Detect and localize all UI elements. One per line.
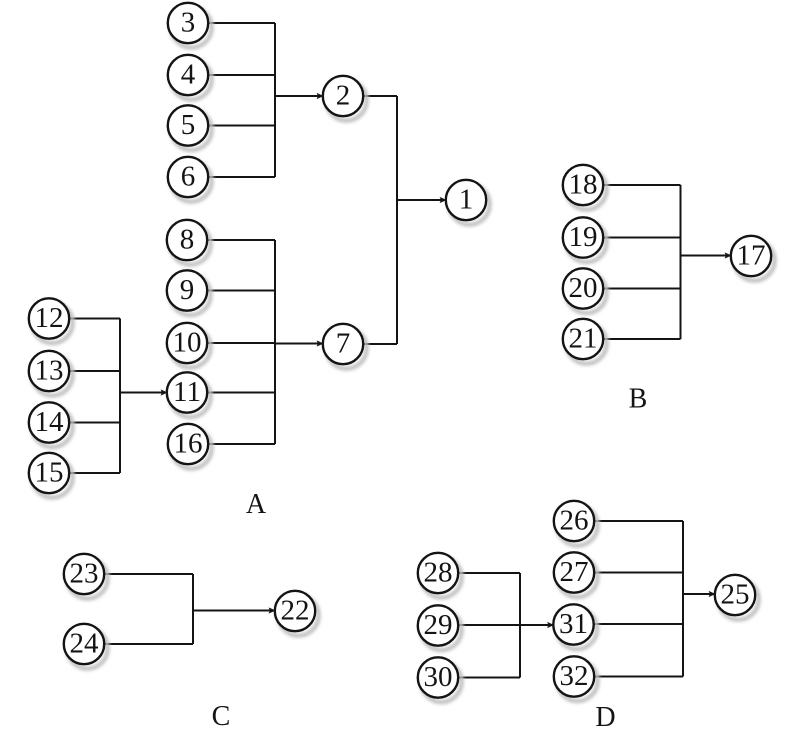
- node 5: [168, 105, 212, 150]
- wire 7-junction: [363, 343, 397, 345]
- svg-text:1: 1: [459, 183, 474, 215]
- svg-text:20: 20: [569, 272, 598, 304]
- wire 20-busB: [603, 288, 680, 290]
- svg-text:6: 6: [181, 160, 196, 192]
- wire 24-busC: [104, 643, 193, 645]
- node 25: [715, 575, 759, 620]
- node 12: [29, 298, 73, 343]
- arrow busC-to-22: [193, 607, 276, 613]
- svg-text:27: 27: [560, 556, 589, 588]
- node 24: [64, 624, 108, 669]
- wire 2-junction: [363, 95, 397, 97]
- node 27: [554, 552, 598, 597]
- node 16: [168, 424, 212, 469]
- node 30: [418, 657, 462, 702]
- svg-text:17: 17: [737, 239, 766, 271]
- wire 3-busA1: [208, 22, 275, 24]
- svg-text:29: 29: [424, 609, 453, 641]
- wire 13-busA3: [69, 370, 120, 372]
- bus A2 (8-16 collector): [274, 240, 276, 444]
- svg-text:26: 26: [560, 504, 589, 536]
- wire 11-busA2: [207, 392, 275, 394]
- svg-text:12: 12: [35, 302, 64, 334]
- label B: [629, 383, 648, 414]
- arrow busA2-to-7: [275, 340, 324, 346]
- wire 4-busA1: [208, 74, 275, 76]
- svg-text:28: 28: [424, 556, 453, 588]
- node 1: [446, 180, 490, 225]
- node 23: [64, 554, 108, 599]
- node 7: [323, 324, 367, 369]
- svg-text:7: 7: [336, 327, 351, 359]
- bus C (23-24 collector): [192, 574, 194, 644]
- node 9: [167, 270, 211, 315]
- wire 28-busD1: [458, 572, 520, 574]
- node 18: [563, 165, 607, 210]
- label D: [595, 702, 615, 733]
- node 22: [275, 591, 319, 636]
- label A: [246, 489, 267, 520]
- wire 8-busA2: [207, 239, 275, 241]
- wire 23-busC: [104, 573, 193, 575]
- svg-text:14: 14: [35, 406, 65, 438]
- svg-text:15: 15: [35, 456, 64, 488]
- wire 19-busB: [603, 237, 680, 239]
- wire 32-busD2: [594, 676, 683, 678]
- wire 9-busA2: [207, 290, 275, 292]
- svg-text:13: 13: [35, 354, 64, 386]
- svg-text:18: 18: [569, 168, 598, 200]
- node 20: [563, 268, 607, 313]
- wire 14-busA3: [69, 422, 120, 424]
- svg-text:24: 24: [70, 627, 100, 659]
- node 14: [29, 402, 73, 447]
- svg-text:3: 3: [181, 6, 196, 38]
- arrow busB-to-17: [681, 252, 732, 258]
- svg-text:9: 9: [180, 274, 195, 306]
- wire 18-busB: [603, 184, 680, 186]
- wire 26-busD2: [594, 520, 683, 522]
- node 13: [29, 351, 73, 396]
- node 21: [563, 319, 607, 364]
- node 3: [168, 3, 212, 48]
- svg-text:32: 32: [560, 660, 589, 692]
- svg-text:11: 11: [173, 376, 201, 408]
- arrow 29-to-31: [458, 622, 554, 628]
- svg-text:25: 25: [721, 578, 750, 610]
- node 31: [553, 604, 597, 649]
- label C: [212, 701, 231, 732]
- node 10: [167, 323, 211, 368]
- svg-text:B: B: [629, 383, 648, 414]
- node 29: [418, 605, 462, 650]
- svg-text:31: 31: [559, 608, 588, 640]
- arrow busD2-to-25: [683, 591, 716, 597]
- svg-text:19: 19: [569, 221, 598, 253]
- bus D1 (28-30 collector): [519, 573, 521, 678]
- node 11: [167, 372, 211, 417]
- node 26: [554, 501, 598, 546]
- node 32: [554, 656, 598, 701]
- bus A4 (2/7 junction vertical): [396, 96, 398, 344]
- node 19: [563, 217, 607, 262]
- svg-text:23: 23: [70, 557, 99, 589]
- svg-text:5: 5: [181, 109, 196, 141]
- svg-text:A: A: [246, 489, 267, 520]
- arrow busA1-to-2: [275, 93, 324, 99]
- bus A3 (12-15 collector): [119, 319, 121, 474]
- svg-text:30: 30: [424, 661, 453, 693]
- wire 31-busD2: [594, 623, 683, 625]
- wire 5-busA1: [208, 125, 275, 127]
- wire 12-busA3: [69, 318, 120, 320]
- node 8: [167, 220, 211, 265]
- svg-text:10: 10: [173, 326, 202, 358]
- wire 10-busA2: [207, 342, 275, 344]
- bus A1 (3-6 collector): [274, 23, 276, 177]
- arrow busA3-to-11: [120, 389, 168, 395]
- node 4: [168, 55, 212, 100]
- svg-text:8: 8: [180, 223, 195, 255]
- node 6: [168, 157, 212, 202]
- svg-text:D: D: [595, 702, 615, 733]
- wire 30-busD1: [458, 677, 520, 679]
- wire 21-busB: [603, 338, 680, 340]
- bus B (18-21 collector): [680, 185, 682, 339]
- svg-text:C: C: [212, 701, 231, 732]
- svg-text:2: 2: [336, 79, 351, 111]
- wire 15-busA3: [69, 472, 120, 474]
- arrow junction-to-1: [397, 197, 447, 203]
- node 15: [29, 453, 73, 498]
- svg-text:22: 22: [281, 594, 310, 626]
- node 28: [418, 553, 462, 598]
- svg-text:16: 16: [174, 427, 203, 459]
- wire 6-busA1: [208, 176, 275, 178]
- node 17: [731, 236, 775, 281]
- svg-text:4: 4: [181, 58, 196, 90]
- node 2: [323, 76, 367, 121]
- wire 16-busA2: [208, 443, 275, 445]
- svg-text:21: 21: [569, 322, 598, 354]
- wire 27-busD2: [594, 572, 683, 574]
- bus D2 (26-32 collector): [682, 521, 684, 677]
